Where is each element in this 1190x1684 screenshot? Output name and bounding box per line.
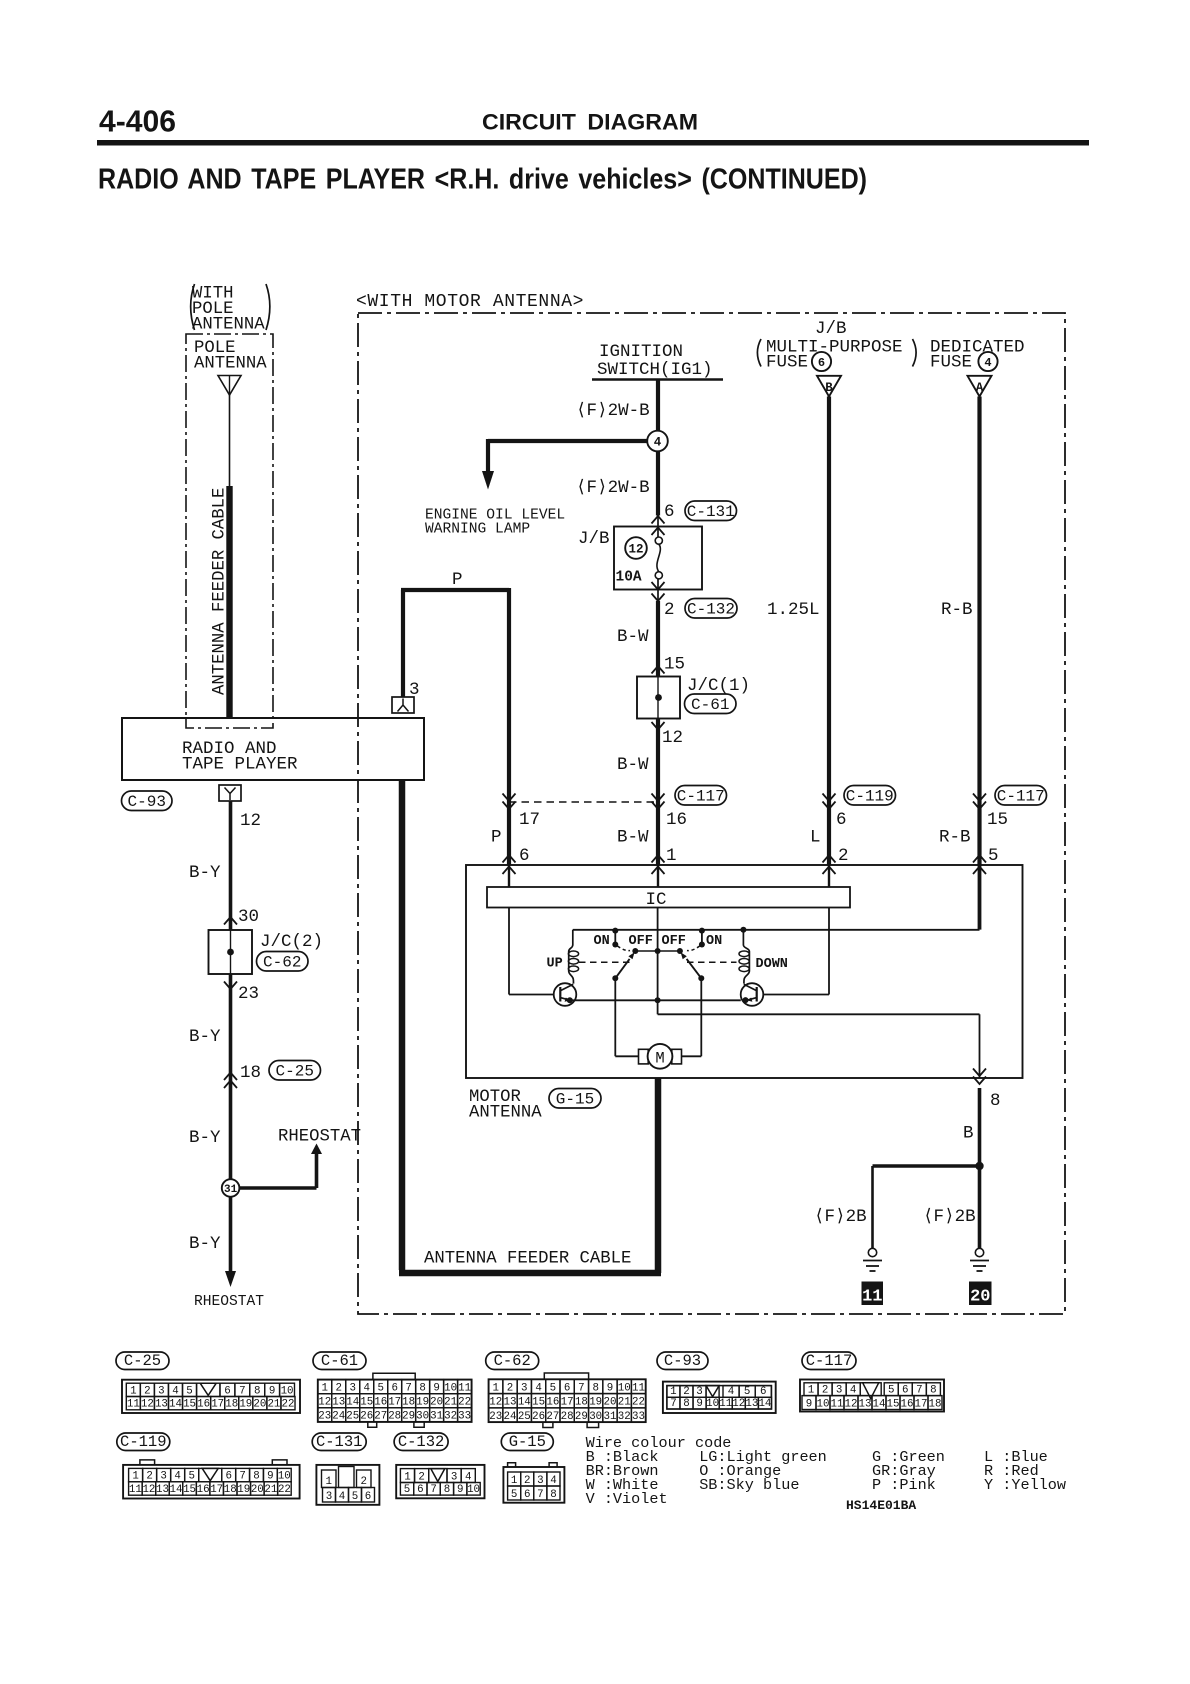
svg-text:21: 21 xyxy=(264,1484,277,1496)
connector triangle B xyxy=(817,376,841,397)
junction block J/B with fuse 12 10A xyxy=(578,527,702,590)
relay power rail xyxy=(573,929,980,931)
svg-text:3: 3 xyxy=(160,1471,166,1483)
svg-text:6: 6 xyxy=(564,1382,570,1394)
svg-text:23: 23 xyxy=(318,1411,331,1423)
svg-text:6: 6 xyxy=(417,1484,423,1496)
svg-text:14: 14 xyxy=(170,1484,183,1496)
svg-text:19: 19 xyxy=(589,1397,602,1409)
wire B-W J/C(1) to motor antenna xyxy=(617,719,683,866)
svg-text:C-62: C-62 xyxy=(263,954,301,972)
wire ignition feed 2W-B upper xyxy=(656,380,660,431)
svg-text:C-131: C-131 xyxy=(316,1433,363,1451)
svg-text:11: 11 xyxy=(129,1484,142,1496)
svg-text:C-61: C-61 xyxy=(691,696,729,714)
switch arm right xyxy=(681,952,737,981)
caption WITH POLE ANTENNA xyxy=(191,284,270,335)
svg-text:C-132: C-132 xyxy=(687,601,735,619)
joint connector J/C(1) C-61 xyxy=(637,666,750,730)
svg-text:3: 3 xyxy=(451,1471,457,1483)
svg-text:10: 10 xyxy=(817,1398,830,1410)
splice circle 31 xyxy=(222,1179,240,1197)
svg-text:28: 28 xyxy=(388,1411,401,1423)
svg-text:ANTENNA FEEDER CABLE: ANTENNA FEEDER CABLE xyxy=(424,1250,631,1269)
svg-text:UP: UP xyxy=(547,957,563,972)
svg-text:7: 7 xyxy=(916,1384,922,1396)
svg-text:4: 4 xyxy=(363,1383,369,1395)
svg-text:13: 13 xyxy=(504,1397,517,1409)
svg-text:<WITH MOTOR ANTENNA>: <WITH MOTOR ANTENNA> xyxy=(356,292,584,312)
svg-text:SB:Sky blue: SB:Sky blue xyxy=(699,1476,799,1494)
svg-text:WARNING LAMP: WARNING LAMP xyxy=(425,522,530,538)
svg-text:7: 7 xyxy=(239,1471,245,1483)
svg-text:3: 3 xyxy=(521,1382,527,1394)
svg-text:26: 26 xyxy=(532,1411,545,1423)
svg-text:6: 6 xyxy=(224,1385,230,1397)
ground 20 xyxy=(969,1248,992,1306)
svg-text:11: 11 xyxy=(632,1382,645,1394)
svg-text:C-25: C-25 xyxy=(124,1352,161,1370)
svg-text:3: 3 xyxy=(158,1385,164,1397)
svg-text:31: 31 xyxy=(603,1411,616,1423)
svg-text:DOWN: DOWN xyxy=(756,957,788,972)
svg-text:Y :Yellow: Y :Yellow xyxy=(984,1476,1066,1494)
svg-text:1: 1 xyxy=(130,1385,136,1397)
svg-text:12: 12 xyxy=(142,1484,155,1496)
svg-text:9: 9 xyxy=(269,1385,275,1397)
svg-text:20: 20 xyxy=(253,1399,266,1411)
page number header 4-406 xyxy=(99,104,176,139)
svg-text:8: 8 xyxy=(254,1385,260,1397)
svg-text:10: 10 xyxy=(281,1385,294,1397)
svg-text:6: 6 xyxy=(664,502,675,522)
svg-text:2: 2 xyxy=(664,600,675,620)
svg-text:5: 5 xyxy=(404,1484,410,1496)
svg-text:2: 2 xyxy=(144,1385,150,1397)
svg-text:8: 8 xyxy=(550,1489,556,1501)
svg-text:17: 17 xyxy=(388,1397,401,1409)
svg-text:IGNITION: IGNITION xyxy=(599,342,683,362)
pole antenna symbol xyxy=(218,376,241,396)
svg-text:14: 14 xyxy=(169,1399,182,1411)
drawing number HS14E01BA xyxy=(846,1498,916,1513)
svg-text:18: 18 xyxy=(240,1063,261,1083)
svg-text:P :Pink: P :Pink xyxy=(872,1476,936,1494)
wire B pin 8 to ground junction xyxy=(963,1069,1001,1171)
label MOTOR ANTENNA G-15 xyxy=(469,1088,601,1123)
svg-text:M: M xyxy=(655,1050,664,1068)
wire B-Y J/C(2) to C-25 xyxy=(189,974,259,1188)
svg-text:17: 17 xyxy=(915,1398,928,1410)
svg-text:5: 5 xyxy=(352,1491,358,1503)
svg-text:13: 13 xyxy=(859,1398,872,1410)
svg-text:6: 6 xyxy=(365,1491,371,1503)
svg-text:14: 14 xyxy=(346,1397,359,1409)
switch contact ON left xyxy=(594,928,631,951)
svg-text:4: 4 xyxy=(984,356,991,370)
svg-text:1: 1 xyxy=(492,1382,498,1394)
svg-text:4: 4 xyxy=(339,1491,345,1503)
svg-text:8: 8 xyxy=(990,1091,1001,1111)
connector C-117 left markers pins 17/6 xyxy=(491,794,540,867)
svg-text:11: 11 xyxy=(862,1288,882,1307)
svg-text:22: 22 xyxy=(282,1399,295,1411)
svg-text:17: 17 xyxy=(561,1397,574,1409)
svg-text:29: 29 xyxy=(402,1411,415,1423)
svg-text:14: 14 xyxy=(518,1397,531,1409)
svg-text:C-93: C-93 xyxy=(128,793,166,811)
svg-text:16: 16 xyxy=(374,1397,387,1409)
svg-text:C-131: C-131 xyxy=(687,503,735,521)
motor antenna unit box xyxy=(466,855,1023,1078)
wire R-B fuse A to motor antenna xyxy=(941,397,980,866)
svg-text:⟨F⟩2W-B: ⟨F⟩2W-B xyxy=(576,478,650,498)
connector G-15 pinout xyxy=(501,1433,564,1503)
svg-text:8: 8 xyxy=(592,1382,598,1394)
svg-text:32: 32 xyxy=(618,1411,631,1423)
transistor Q1 left xyxy=(509,908,576,1006)
svg-text:15: 15 xyxy=(532,1397,545,1409)
svg-text:19: 19 xyxy=(416,1397,429,1409)
svg-text:ANTENNA: ANTENNA xyxy=(194,355,267,374)
svg-text:8: 8 xyxy=(253,1471,259,1483)
caption WITH MOTOR ANTENNA xyxy=(356,292,584,312)
svg-text:HS14E01BA: HS14E01BA xyxy=(846,1498,916,1513)
svg-text:33: 33 xyxy=(458,1411,471,1423)
svg-text:16: 16 xyxy=(197,1399,210,1411)
svg-text:12: 12 xyxy=(489,1397,502,1409)
svg-text:19: 19 xyxy=(237,1484,250,1496)
connector C-93 label xyxy=(122,791,173,811)
svg-text:2: 2 xyxy=(822,1384,828,1396)
svg-text:13: 13 xyxy=(155,1399,168,1411)
transistor Q2 right xyxy=(741,908,829,1006)
svg-text:6: 6 xyxy=(524,1489,530,1501)
svg-text:CIRCUIT DIAGRAM: CIRCUIT DIAGRAM xyxy=(482,110,698,135)
wire P radio to motor antenna xyxy=(401,570,509,865)
svg-text:22: 22 xyxy=(278,1484,291,1496)
svg-text:2: 2 xyxy=(418,1471,424,1483)
svg-text:10: 10 xyxy=(618,1382,631,1394)
svg-text:15: 15 xyxy=(987,810,1008,830)
svg-text:18: 18 xyxy=(575,1397,588,1409)
svg-text:3: 3 xyxy=(350,1383,356,1395)
svg-text:4: 4 xyxy=(172,1385,178,1397)
connector triangle A xyxy=(968,376,992,397)
svg-text:16: 16 xyxy=(666,810,687,830)
svg-text:5: 5 xyxy=(511,1489,517,1501)
svg-text:32: 32 xyxy=(444,1411,457,1423)
label ENGINE OIL LEVEL WARNING LAMP xyxy=(425,508,565,538)
svg-text:1: 1 xyxy=(511,1475,517,1487)
svg-text:10A: 10A xyxy=(616,570,642,586)
svg-text:5: 5 xyxy=(888,1384,894,1396)
svg-text:R-B: R-B xyxy=(939,828,971,848)
connector C-131 pin 6 marker xyxy=(652,501,737,535)
svg-text:7: 7 xyxy=(405,1383,411,1395)
svg-text:8: 8 xyxy=(444,1484,450,1496)
svg-text:ANTENNA: ANTENNA xyxy=(469,1104,542,1123)
svg-text:P: P xyxy=(491,828,502,848)
svg-text:29: 29 xyxy=(575,1411,588,1423)
relay coil DOWN xyxy=(739,927,788,984)
svg-text:C-119: C-119 xyxy=(846,788,894,806)
svg-text:15: 15 xyxy=(664,655,685,675)
IC bar xyxy=(487,865,850,910)
svg-text:10: 10 xyxy=(467,1484,480,1496)
svg-text:11: 11 xyxy=(127,1399,140,1411)
svg-text:13: 13 xyxy=(332,1397,345,1409)
svg-text:1: 1 xyxy=(322,1383,328,1395)
pole antenna dash-dot enclosure xyxy=(186,334,273,728)
svg-text:6: 6 xyxy=(818,356,825,370)
svg-text:19: 19 xyxy=(239,1399,252,1411)
svg-text:G-15: G-15 xyxy=(509,1433,546,1451)
ground 11 xyxy=(862,1248,884,1306)
wire B-Y to rheostat xyxy=(189,1197,264,1310)
svg-text:J/C(2): J/C(2) xyxy=(260,932,323,952)
switch pivot line xyxy=(632,948,683,954)
svg-text:8: 8 xyxy=(683,1398,689,1410)
svg-text:C-117: C-117 xyxy=(997,788,1045,806)
svg-text:B-W: B-W xyxy=(617,828,649,848)
svg-text:17: 17 xyxy=(519,810,540,830)
svg-text:16: 16 xyxy=(546,1397,559,1409)
wire 1.25L fuse B to motor antenna xyxy=(767,397,829,866)
label B-Y third xyxy=(189,1128,221,1148)
switch arm left xyxy=(579,952,635,981)
svg-text:J/C(1): J/C(1) xyxy=(687,676,750,696)
svg-text:C-25: C-25 xyxy=(276,1063,314,1081)
svg-text:2: 2 xyxy=(360,1476,366,1488)
svg-text:C-132: C-132 xyxy=(398,1433,445,1451)
svg-text:⟨F⟩2W-B: ⟨F⟩2W-B xyxy=(576,401,650,421)
svg-text:SWITCH(IG1): SWITCH(IG1) xyxy=(597,360,713,380)
svg-text:28: 28 xyxy=(561,1411,574,1423)
svg-text:RHEOSTAT: RHEOSTAT xyxy=(194,1294,264,1310)
svg-text:G-15: G-15 xyxy=(556,1091,594,1109)
svg-text:27: 27 xyxy=(374,1411,387,1423)
svg-text:B-Y: B-Y xyxy=(189,1234,221,1254)
svg-text:9: 9 xyxy=(457,1484,463,1496)
svg-text:1: 1 xyxy=(132,1471,138,1483)
svg-text:31: 31 xyxy=(430,1411,443,1423)
svg-text:12: 12 xyxy=(240,811,261,831)
wire B-W ignition to J/C(1) xyxy=(617,601,685,677)
svg-text:3: 3 xyxy=(696,1386,702,1398)
connector C-93 pinout xyxy=(657,1352,776,1413)
label (F)2W-B upper xyxy=(576,401,650,421)
connector C-119 marker pins 6/2 xyxy=(810,786,896,867)
svg-text:22: 22 xyxy=(458,1397,471,1409)
svg-text:11: 11 xyxy=(719,1398,732,1410)
svg-text:18: 18 xyxy=(929,1398,942,1410)
svg-text:2: 2 xyxy=(336,1383,342,1395)
svg-text:9: 9 xyxy=(267,1471,273,1483)
svg-text:30: 30 xyxy=(589,1411,602,1423)
svg-text:A: A xyxy=(976,381,984,395)
svg-text:ON: ON xyxy=(594,934,610,949)
svg-text:22: 22 xyxy=(632,1397,645,1409)
svg-text:J/B: J/B xyxy=(578,529,610,549)
svg-text:21: 21 xyxy=(267,1399,280,1411)
svg-text:12: 12 xyxy=(318,1397,331,1409)
svg-text:7: 7 xyxy=(578,1382,584,1394)
svg-text:12: 12 xyxy=(732,1398,745,1410)
svg-text:ON: ON xyxy=(706,934,722,949)
connector C-131 pinout xyxy=(312,1433,379,1505)
svg-text:RHEOSTAT: RHEOSTAT xyxy=(278,1128,361,1147)
wire IC center to ground output xyxy=(658,908,980,1079)
svg-text:4: 4 xyxy=(535,1382,541,1394)
svg-text:12: 12 xyxy=(845,1398,858,1410)
svg-text:2: 2 xyxy=(507,1382,513,1394)
svg-text:20: 20 xyxy=(603,1397,616,1409)
wire ground branch right xyxy=(923,1166,980,1248)
joint connector J/C(2) C-62 xyxy=(209,917,324,989)
svg-text:2: 2 xyxy=(683,1386,689,1398)
svg-text:21: 21 xyxy=(618,1397,631,1409)
svg-text:12: 12 xyxy=(141,1399,154,1411)
radio and tape player unit xyxy=(122,718,424,780)
wire branch to engine oil level warning lamp xyxy=(482,439,647,490)
svg-text:9: 9 xyxy=(433,1383,439,1395)
connector C-61 pinout xyxy=(313,1352,472,1427)
wire ignition feed 2W-B lower xyxy=(656,451,660,515)
svg-text:⟨F⟩2B: ⟨F⟩2B xyxy=(923,1207,976,1227)
wire colour code legend xyxy=(586,1434,1066,1508)
svg-text:30: 30 xyxy=(238,907,259,927)
label POLE ANTENNA xyxy=(194,339,267,374)
svg-text:15: 15 xyxy=(183,1484,196,1496)
svg-text:B-W: B-W xyxy=(617,627,649,647)
label (F)2W-B lower xyxy=(576,478,650,498)
junction circle 4 xyxy=(647,431,668,452)
svg-text:2: 2 xyxy=(524,1475,530,1487)
emitter rail xyxy=(567,997,749,1003)
svg-text:15: 15 xyxy=(183,1399,196,1411)
svg-text:1: 1 xyxy=(666,846,677,866)
svg-text:4: 4 xyxy=(465,1471,471,1483)
connector C-25 pin 18 marker xyxy=(224,1061,321,1089)
svg-text:C-117: C-117 xyxy=(806,1352,853,1370)
svg-text:ANTENNA FEEDER CABLE: ANTENNA FEEDER CABLE xyxy=(211,488,230,695)
svg-text:12: 12 xyxy=(628,543,643,557)
svg-text:C-62: C-62 xyxy=(494,1352,531,1370)
svg-text:5: 5 xyxy=(988,846,999,866)
svg-text:4-406: 4-406 xyxy=(99,104,176,139)
svg-text:11: 11 xyxy=(458,1383,471,1395)
svg-text:1: 1 xyxy=(325,1476,331,1488)
svg-text:5: 5 xyxy=(188,1471,194,1483)
svg-text:10: 10 xyxy=(444,1383,457,1395)
svg-text:6: 6 xyxy=(519,846,530,866)
connector C-132 pinout xyxy=(394,1433,484,1498)
header rule xyxy=(97,140,1089,146)
connector C-117 right marker pins 15/5 xyxy=(939,786,1047,867)
svg-text:8: 8 xyxy=(930,1384,936,1396)
svg-text:18: 18 xyxy=(224,1484,237,1496)
svg-text:3: 3 xyxy=(326,1491,332,1503)
svg-text:33: 33 xyxy=(632,1411,645,1423)
svg-text:IC: IC xyxy=(645,890,666,910)
svg-text:C-117: C-117 xyxy=(677,788,725,806)
svg-text:15: 15 xyxy=(360,1397,373,1409)
svg-text:26: 26 xyxy=(360,1411,373,1423)
svg-text:RADIO AND TAPE PLAYER <R.H. dr: RADIO AND TAPE PLAYER <R.H. drive vehicl… xyxy=(98,164,867,196)
svg-text:1: 1 xyxy=(670,1386,676,1398)
connector row dashed line C-117 xyxy=(509,801,658,803)
antenna feeder cable route xyxy=(399,780,661,1273)
svg-text:B-Y: B-Y xyxy=(189,1128,221,1148)
svg-text:17: 17 xyxy=(210,1484,223,1496)
svg-text:2: 2 xyxy=(838,846,849,866)
svg-text:ANTENNA: ANTENNA xyxy=(192,316,265,335)
svg-text:P: P xyxy=(452,570,463,590)
svg-text:21: 21 xyxy=(444,1397,457,1409)
svg-text:23: 23 xyxy=(238,984,259,1004)
svg-text:6: 6 xyxy=(391,1383,397,1395)
svg-text:7: 7 xyxy=(430,1484,436,1496)
motor antenna system dash-dot enclosure xyxy=(358,313,1065,1314)
svg-text:⟨F⟩2B: ⟨F⟩2B xyxy=(814,1207,867,1227)
svg-text:5: 5 xyxy=(744,1386,750,1398)
wire B-Y radio to J/C(2) xyxy=(189,801,259,930)
svg-text:C-61: C-61 xyxy=(321,1352,358,1370)
radio connector Y terminal pin 12 xyxy=(219,785,261,831)
svg-text:14: 14 xyxy=(873,1398,886,1410)
svg-text:7: 7 xyxy=(670,1398,676,1410)
svg-text:16: 16 xyxy=(901,1398,914,1410)
svg-text:6: 6 xyxy=(225,1471,231,1483)
svg-text:OFF: OFF xyxy=(629,934,653,949)
svg-text:3: 3 xyxy=(836,1384,842,1396)
svg-text:12: 12 xyxy=(662,728,683,748)
svg-text:9: 9 xyxy=(607,1382,613,1394)
relay coil UP xyxy=(547,930,579,984)
svg-text:30: 30 xyxy=(416,1411,429,1423)
svg-text:18: 18 xyxy=(225,1399,238,1411)
connector C-119 pinout xyxy=(117,1433,300,1499)
svg-text:B: B xyxy=(825,381,833,395)
svg-text:14: 14 xyxy=(758,1398,771,1410)
wire pole antenna lead xyxy=(229,395,231,486)
radio connector 3 terminal xyxy=(392,680,420,713)
labels OFF OFF xyxy=(629,934,686,949)
svg-text:18: 18 xyxy=(402,1397,415,1409)
svg-text:8: 8 xyxy=(419,1383,425,1395)
switch contact ON right xyxy=(687,928,722,951)
svg-text:1: 1 xyxy=(404,1471,410,1483)
ignition switch IG1 xyxy=(592,342,723,380)
svg-text:20: 20 xyxy=(970,1288,990,1307)
svg-text:15: 15 xyxy=(887,1398,900,1410)
wire R-B internal drop to relay rail xyxy=(978,865,982,930)
svg-text:4: 4 xyxy=(728,1386,734,1398)
antenna feeder cable thick segment (pole) xyxy=(226,486,232,718)
svg-text:10: 10 xyxy=(278,1471,291,1483)
svg-text:C-93: C-93 xyxy=(664,1352,701,1370)
svg-text:FUSE: FUSE xyxy=(930,353,972,373)
svg-text:17: 17 xyxy=(211,1399,224,1411)
header CIRCUIT DIAGRAM xyxy=(482,110,698,135)
svg-text:B-W: B-W xyxy=(617,755,649,775)
svg-text:R-B: R-B xyxy=(941,600,973,620)
svg-text:4: 4 xyxy=(654,436,662,450)
svg-text:6: 6 xyxy=(760,1386,766,1398)
svg-text:5: 5 xyxy=(377,1383,383,1395)
svg-text:7: 7 xyxy=(239,1385,245,1397)
